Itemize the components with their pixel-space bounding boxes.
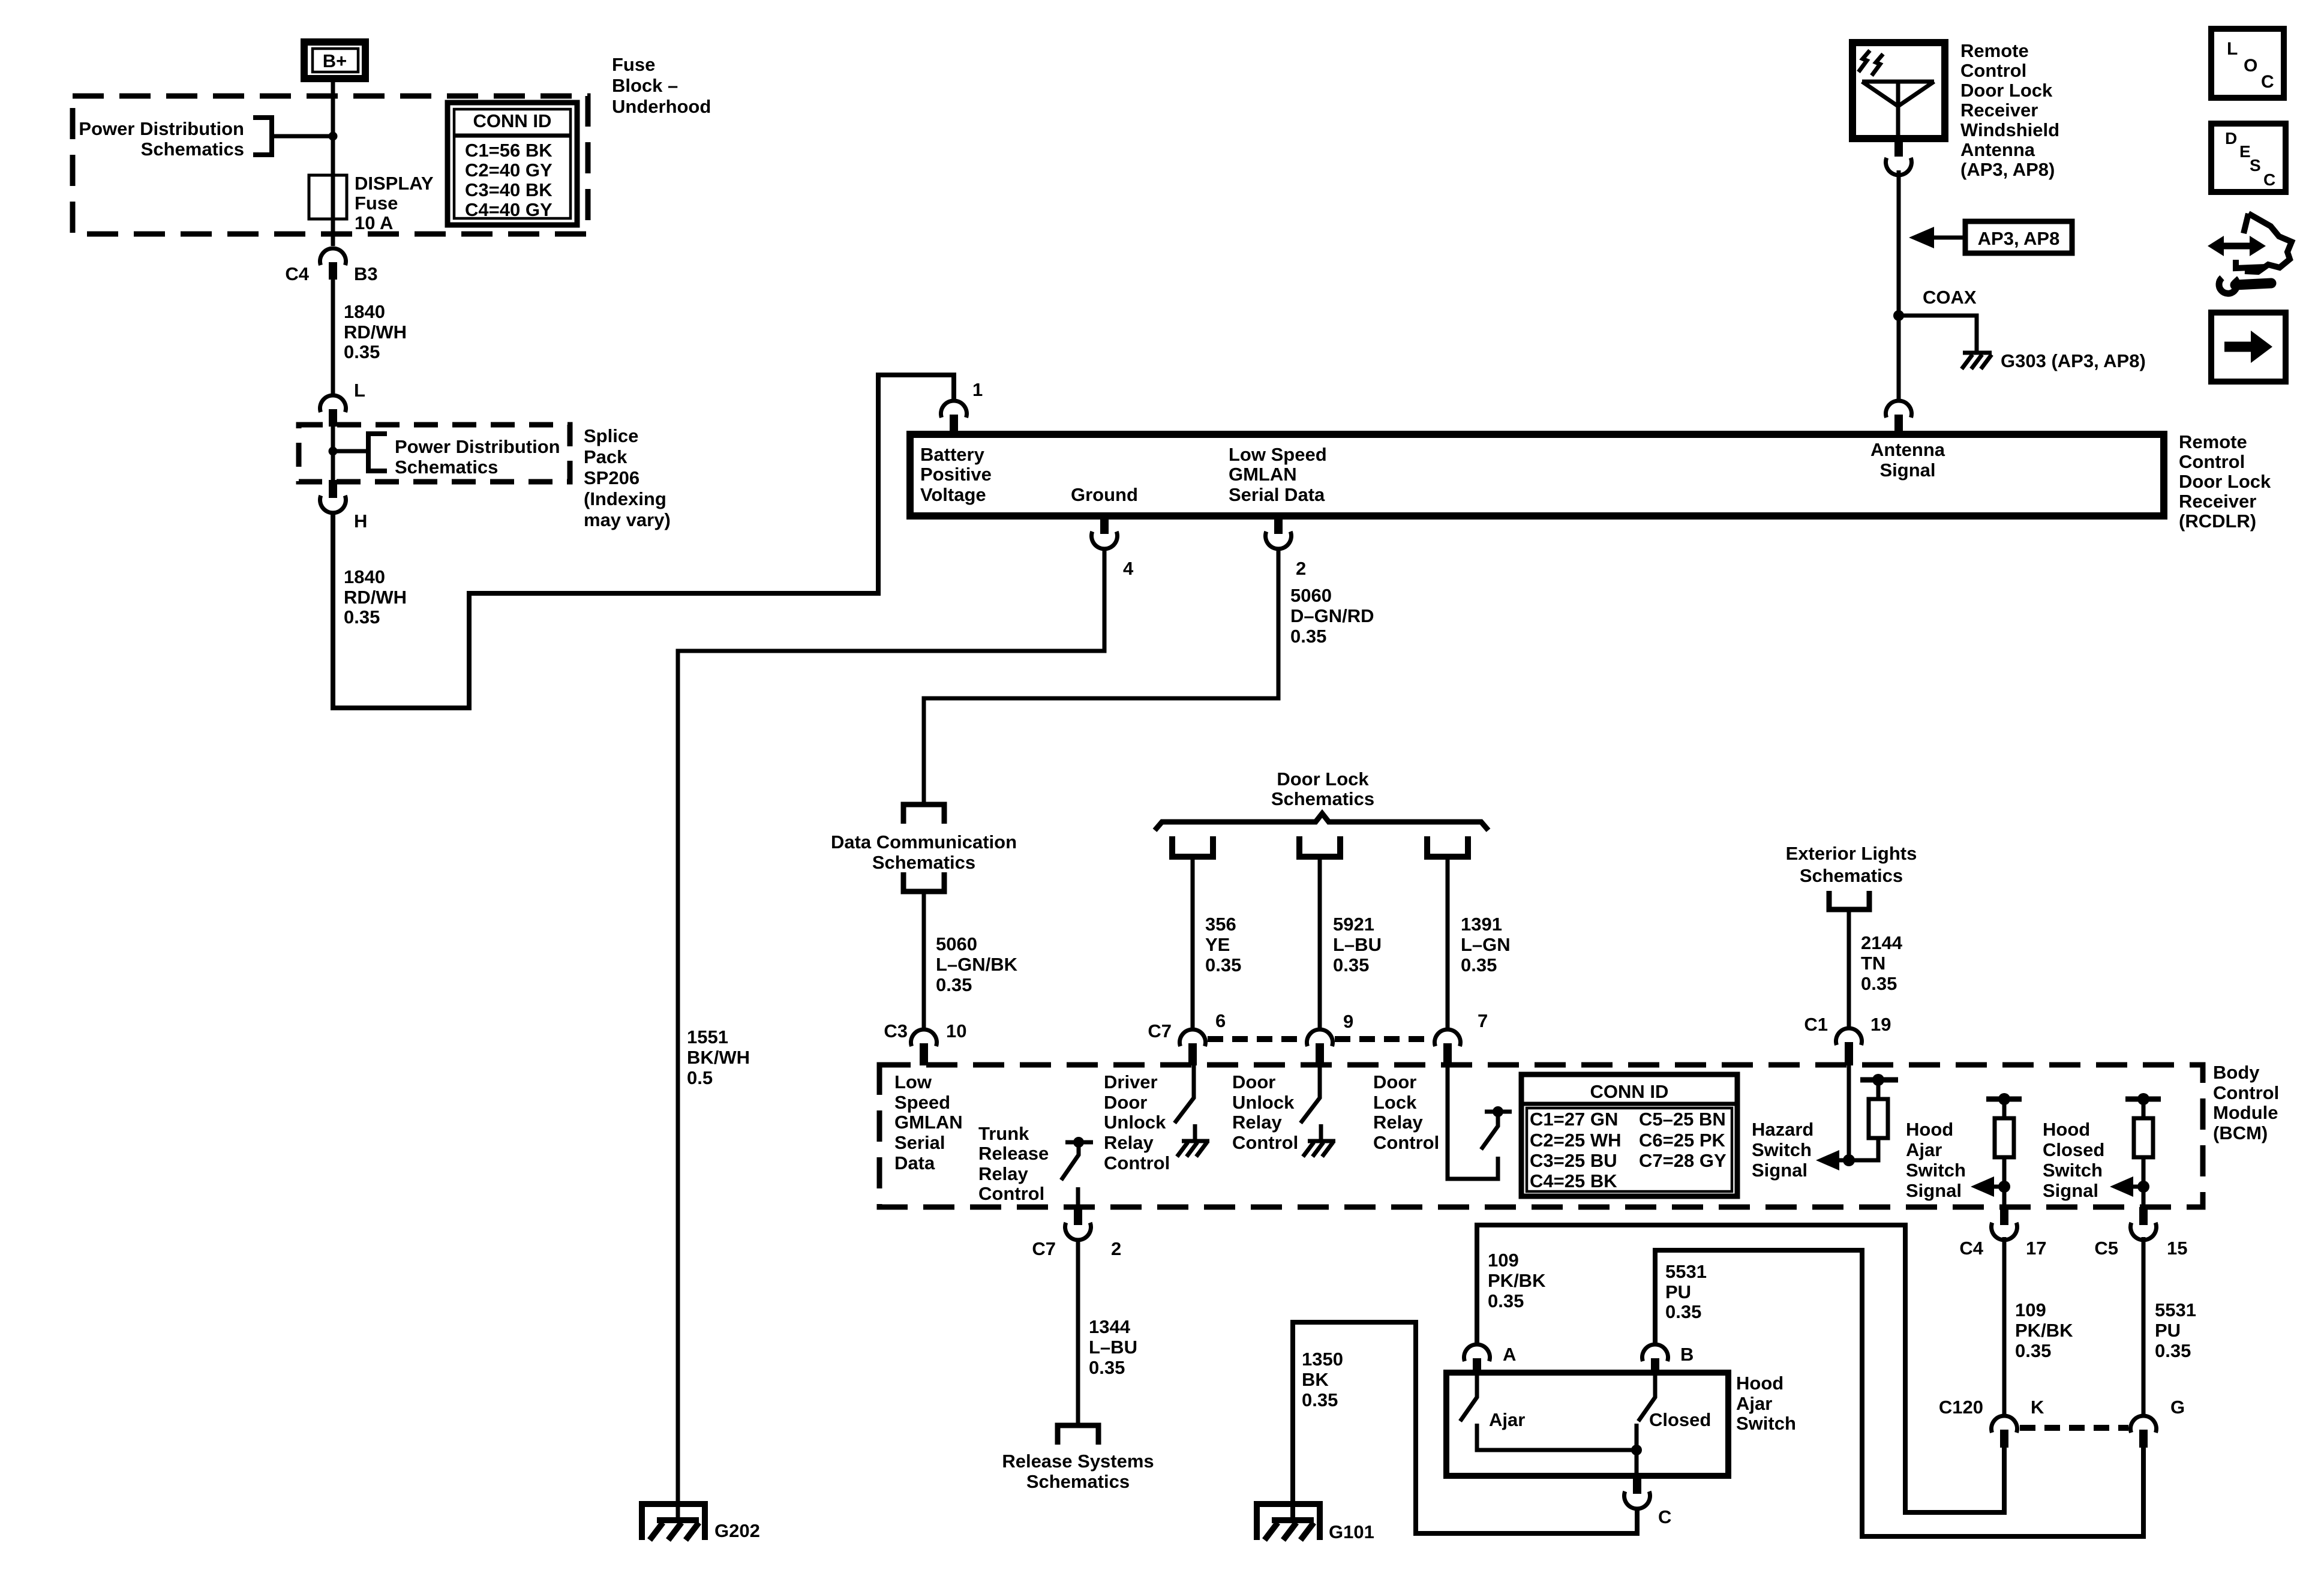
icon forward arrow box	[2211, 313, 2286, 382]
fuse DISPLAY 10A	[309, 173, 434, 233]
svg-text:(RCDLR): (RCDLR)	[2179, 511, 2256, 532]
svg-text:Remote: Remote	[1960, 40, 2029, 61]
svg-text:109: 109	[1488, 1250, 1519, 1271]
wire 5921 L-BU	[1318, 857, 1322, 1028]
connector C3 pin 10	[884, 1020, 966, 1065]
svg-text:Low: Low	[894, 1071, 932, 1092]
svg-text:G: G	[2170, 1397, 2185, 1418]
bracket door lock wire 1	[1172, 836, 1213, 857]
svg-text:Relay: Relay	[1104, 1132, 1154, 1153]
svg-text:L: L	[2227, 39, 2238, 59]
label Door Lock Schematics	[1271, 769, 1374, 809]
svg-text:Release: Release	[978, 1143, 1049, 1164]
svg-text:Control: Control	[1960, 60, 2026, 81]
svg-text:G101: G101	[1329, 1521, 1374, 1542]
svg-text:C2=40 GY: C2=40 GY	[465, 160, 553, 181]
label Remote Control Door Lock Receiver Windshield Antenna	[1960, 40, 2059, 180]
svg-text:C7: C7	[1032, 1238, 1056, 1259]
reference Exterior Lights Schematics	[1786, 843, 1917, 909]
label Remote Control Door Lock Receiver (RCDLR)	[2179, 431, 2271, 532]
svg-text:Schematics: Schematics	[1026, 1471, 1130, 1492]
svg-text:0.35: 0.35	[936, 974, 972, 995]
svg-text:C120: C120	[1939, 1397, 1983, 1418]
dashed connector line K-G	[2020, 1425, 2128, 1431]
svg-text:K: K	[2031, 1397, 2044, 1418]
driver door unlock switch	[1175, 1065, 1194, 1123]
svg-text:Unlock: Unlock	[1232, 1092, 1295, 1113]
svg-text:9: 9	[1343, 1011, 1353, 1032]
svg-text:Control: Control	[1104, 1152, 1170, 1173]
svg-text:Relay: Relay	[1373, 1112, 1423, 1133]
connector B hood switch	[1642, 1344, 1694, 1375]
svg-text:0.35: 0.35	[1290, 626, 1326, 647]
svg-text:Ground: Ground	[1071, 484, 1138, 505]
svg-text:Schematics: Schematics	[1800, 865, 1903, 886]
svg-text:Unlock: Unlock	[1104, 1112, 1166, 1133]
svg-text:Switch: Switch	[1736, 1413, 1796, 1434]
svg-text:Door: Door	[1104, 1092, 1147, 1113]
svg-text:1344: 1344	[1089, 1316, 1131, 1337]
svg-text:Door Lock: Door Lock	[1277, 769, 1369, 789]
coax wire to RCDLR	[1897, 170, 1901, 400]
svg-text:Schematics: Schematics	[141, 139, 244, 160]
svg-text:1350: 1350	[1302, 1349, 1343, 1370]
pin label Hazard Switch Signal	[1752, 1119, 1813, 1181]
connector pin 1	[941, 379, 983, 434]
connector C120 G	[2131, 1397, 2185, 1448]
svg-text:Antenna: Antenna	[1960, 139, 2035, 160]
svg-text:Data Communication: Data Communication	[831, 831, 1017, 852]
svg-text:B+: B+	[323, 50, 347, 71]
svg-text:BK/WH: BK/WH	[687, 1047, 750, 1068]
svg-text:Release Systems: Release Systems	[1002, 1451, 1154, 1472]
svg-text:0.35: 0.35	[1488, 1290, 1524, 1311]
svg-text:C: C	[1658, 1506, 1671, 1527]
hood ajar switch box	[1446, 1373, 1728, 1476]
svg-text:Closed: Closed	[1649, 1409, 1711, 1430]
connector C4 pin 17	[1959, 1207, 2046, 1259]
svg-text:S: S	[2250, 156, 2261, 175]
svg-text:C1=56 BK: C1=56 BK	[465, 140, 553, 161]
hood ajar arrow junction	[1971, 1176, 2010, 1197]
wire from G to hood ajar switch B	[1655, 1250, 2143, 1536]
wire from B+ into fuse block	[331, 82, 335, 246]
svg-text:0.35: 0.35	[344, 341, 380, 362]
bracket door lock wire 3	[1427, 836, 1468, 857]
svg-text:GMLAN: GMLAN	[894, 1112, 963, 1133]
svg-text:C4: C4	[285, 263, 309, 284]
svg-text:Splice: Splice	[584, 425, 638, 446]
junction dot hood switch common	[1631, 1445, 1642, 1455]
RCDLR box	[910, 434, 2164, 516]
svg-text:Door Lock: Door Lock	[1960, 80, 2053, 101]
connector C120 K	[1939, 1397, 2044, 1448]
svg-text:Hood: Hood	[2043, 1119, 2090, 1140]
svg-text:Remote: Remote	[2179, 431, 2247, 452]
svg-text:Trunk: Trunk	[978, 1123, 1029, 1144]
svg-text:AP3, AP8: AP3, AP8	[1978, 228, 2060, 249]
svg-text:SP206: SP206	[584, 467, 639, 488]
wire label 5060 D-GN/RD 0.35	[1290, 585, 1374, 647]
connector C7 pin 6	[1148, 1010, 1226, 1065]
svg-text:Schematics: Schematics	[872, 852, 975, 873]
svg-text:Signal: Signal	[1879, 460, 1935, 481]
svg-text:H: H	[354, 511, 367, 532]
connector pin 7	[1435, 1010, 1488, 1065]
svg-text:B: B	[1680, 1344, 1694, 1365]
svg-text:Power Distribution: Power Distribution	[79, 118, 244, 139]
wire 5531 PU C5-15 to C120-G	[2142, 1237, 2146, 1415]
svg-text:D–GN/RD: D–GN/RD	[1290, 605, 1374, 626]
AP3 AP8 flag box with arrow	[1909, 221, 2072, 253]
svg-text:Control: Control	[978, 1183, 1044, 1204]
pin label Battery Positive Voltage	[920, 444, 992, 505]
svg-text:Ajar: Ajar	[1906, 1139, 1942, 1160]
pin label Low Speed GMLAN Serial Data	[1229, 444, 1327, 505]
svg-text:DISPLAY: DISPLAY	[355, 173, 434, 194]
svg-text:0.35: 0.35	[2155, 1340, 2191, 1361]
dashed connector line pins 9-7	[1335, 1036, 1433, 1042]
svg-text:Switch: Switch	[1752, 1139, 1812, 1160]
svg-text:Switch: Switch	[2043, 1160, 2103, 1181]
svg-text:may vary): may vary)	[584, 509, 671, 530]
svg-text:Data: Data	[894, 1152, 935, 1173]
svg-text:Positive: Positive	[920, 464, 992, 485]
svg-text:0.35: 0.35	[2015, 1340, 2051, 1361]
svg-text:109: 109	[2015, 1299, 2046, 1320]
wire label 5531 PU 0.35 (left)	[1665, 1261, 1707, 1322]
connector C4/B3	[285, 248, 377, 284]
svg-text:C7=28 GY: C7=28 GY	[1639, 1150, 1727, 1171]
svg-text:BK: BK	[1302, 1369, 1329, 1390]
label Fuse Block - Underhood	[612, 54, 711, 117]
svg-text:5060: 5060	[1290, 585, 1332, 606]
svg-text:Signal: Signal	[1906, 1180, 1962, 1201]
svg-text:Power Distribution: Power Distribution	[395, 436, 560, 457]
svg-text:YE: YE	[1205, 934, 1230, 955]
svg-text:5921: 5921	[1333, 914, 1374, 935]
BCM dashed box	[879, 1065, 2203, 1207]
wire label 5060 L-GN/BK 0.35	[936, 933, 1018, 995]
svg-text:Ajar: Ajar	[1736, 1393, 1772, 1414]
svg-text:Voltage: Voltage	[920, 484, 986, 505]
ajar switch blade	[1460, 1375, 1637, 1450]
svg-text:C5: C5	[2094, 1238, 2118, 1259]
svg-text:CONN ID: CONN ID	[473, 110, 552, 131]
wire 5060 L-GN/BK to BCM	[922, 891, 926, 1028]
svg-text:A: A	[1503, 1344, 1516, 1365]
svg-text:Speed: Speed	[894, 1092, 950, 1113]
svg-text:5060: 5060	[936, 933, 977, 954]
junction dot at fuse feed	[329, 132, 338, 141]
door unlock relay switch	[1301, 1065, 1320, 1123]
pin label Low Speed GMLAN Serial Data (BCM)	[894, 1071, 963, 1173]
svg-text:PK/BK: PK/BK	[2015, 1320, 2073, 1341]
svg-text:1840: 1840	[344, 566, 385, 587]
svg-text:(AP3, AP8): (AP3, AP8)	[1960, 159, 2055, 180]
reference bracket Power Distribution Schematics (fuse block)	[79, 118, 333, 160]
wire label 5531 PU 0.35 (right)	[2155, 1299, 2196, 1361]
connector A hood switch	[1464, 1344, 1516, 1375]
svg-text:C4: C4	[1959, 1238, 1983, 1259]
svg-text:Signal: Signal	[2043, 1180, 2098, 1201]
svg-text:1391: 1391	[1461, 914, 1502, 935]
svg-text:Serial Data: Serial Data	[1229, 484, 1325, 505]
wire label 1551 BK/WH 0.5	[687, 1026, 750, 1088]
svg-text:Driver: Driver	[1104, 1071, 1158, 1092]
ground G303	[1962, 350, 2146, 371]
fuse block underhood dashed box	[73, 96, 588, 234]
svg-text:Control: Control	[1232, 1132, 1298, 1153]
svg-text:L: L	[354, 380, 365, 401]
svg-text:0.35: 0.35	[1333, 954, 1369, 975]
wire label 109 PK/BK 0.35 (left)	[1488, 1250, 1546, 1311]
svg-text:0.35: 0.35	[1302, 1389, 1338, 1410]
svg-text:Hazard: Hazard	[1752, 1119, 1813, 1140]
reference Release Systems Schematics	[1002, 1425, 1154, 1492]
wire C4 to L	[331, 278, 335, 394]
svg-text:L–BU: L–BU	[1089, 1337, 1137, 1358]
reference bracket Power Distribution Schematics (splice)	[333, 434, 560, 478]
svg-text:C5–25 BN: C5–25 BN	[1639, 1109, 1726, 1130]
svg-text:C3=40 BK: C3=40 BK	[465, 179, 553, 200]
svg-text:C: C	[2263, 170, 2275, 189]
wire label 2144 TN 0.35	[1861, 932, 1903, 994]
svg-text:C: C	[2261, 72, 2274, 92]
resistor hood closed switch	[2125, 1093, 2161, 1207]
door lock relay switch	[1448, 1065, 1512, 1179]
svg-text:0.35: 0.35	[1089, 1357, 1125, 1378]
svg-text:Body: Body	[2213, 1062, 2260, 1083]
splice pack SP206 dashed box	[299, 425, 570, 482]
svg-text:5531: 5531	[2155, 1299, 2196, 1320]
wire L to splice pack	[331, 425, 335, 480]
closed switch blade	[1637, 1375, 1711, 1476]
svg-text:5531: 5531	[1665, 1261, 1707, 1282]
svg-text:E: E	[2239, 142, 2251, 161]
icon LOC	[2211, 29, 2284, 98]
connector C1 pin 19	[1804, 1014, 1891, 1065]
label Splice Pack SP206	[584, 425, 671, 530]
icon DESC	[2211, 124, 2286, 192]
svg-text:(Indexing: (Indexing	[584, 488, 666, 509]
svg-text:G202: G202	[714, 1520, 760, 1541]
connector pin 2	[1266, 516, 1307, 579]
wire from K to hood ajar switch A	[1477, 1225, 2004, 1512]
wire label 356 YE 0.35	[1205, 914, 1241, 975]
CONN ID table (fuse block)	[448, 103, 577, 225]
svg-text:Low Speed: Low Speed	[1229, 444, 1327, 465]
svg-text:Schematics: Schematics	[395, 457, 498, 478]
connector H	[320, 480, 368, 532]
svg-text:B3: B3	[354, 263, 378, 284]
wire 1840 from H to RCDLR pin 1	[333, 375, 954, 708]
resistor hood ajar switch	[1986, 1093, 2022, 1207]
svg-text:CONN ID: CONN ID	[1590, 1081, 1669, 1102]
svg-text:17: 17	[2026, 1238, 2046, 1259]
svg-text:Signal: Signal	[1752, 1160, 1807, 1181]
ground symbol door unlock	[1303, 1124, 1335, 1157]
dashed connector line pins 6-9	[1208, 1036, 1305, 1042]
svg-text:(BCM): (BCM)	[2213, 1122, 2268, 1143]
pin label Door Unlock Relay Control	[1232, 1071, 1298, 1153]
wire label 5921 L-BU 0.35	[1333, 914, 1382, 975]
svg-text:Door Lock: Door Lock	[2179, 471, 2271, 492]
wire label 1840 RD/WH 0.35 (lower)	[344, 566, 407, 628]
svg-text:Receiver: Receiver	[2179, 491, 2256, 512]
svg-text:0.35: 0.35	[1205, 954, 1241, 975]
svg-text:0.35: 0.35	[1861, 973, 1897, 994]
CONN ID table (BCM)	[1521, 1074, 1737, 1196]
ground G202	[642, 1504, 760, 1541]
svg-text:Fuse: Fuse	[612, 54, 655, 75]
svg-text:1551: 1551	[687, 1026, 728, 1047]
svg-text:0.35: 0.35	[344, 607, 380, 628]
pin label Door Lock Relay Control	[1373, 1071, 1439, 1153]
svg-text:Relay: Relay	[1232, 1112, 1282, 1133]
svg-text:Switch: Switch	[1906, 1160, 1966, 1181]
svg-text:10: 10	[946, 1020, 966, 1041]
node B+ battery feed	[304, 42, 365, 79]
svg-text:Door: Door	[1373, 1071, 1416, 1092]
svg-text:G303 (AP3, AP8): G303 (AP3, AP8)	[2001, 350, 2146, 371]
connector pin 4	[1092, 516, 1134, 579]
trunk release relay switch	[1061, 1137, 1093, 1207]
reference Data Communication Schematics	[831, 804, 1017, 891]
svg-text:C3=25 BU: C3=25 BU	[1530, 1150, 1617, 1171]
svg-text:4: 4	[1123, 558, 1134, 579]
svg-text:Antenna: Antenna	[1870, 439, 1945, 460]
wire from C to ground G101	[1293, 1322, 1637, 1533]
svg-text:D: D	[2225, 129, 2237, 148]
pin label Driver Door Unlock Relay Control	[1104, 1071, 1170, 1173]
svg-text:Receiver: Receiver	[1960, 100, 2038, 121]
wire label 1840 RD/WH 0.35 (upper)	[344, 301, 407, 362]
svg-text:TN: TN	[1861, 953, 1885, 974]
svg-text:Closed: Closed	[2043, 1139, 2104, 1160]
svg-text:C7: C7	[1148, 1020, 1172, 1041]
junction dot coax ground tap	[1893, 310, 1904, 321]
svg-text:PU: PU	[1665, 1281, 1691, 1302]
svg-text:PU: PU	[2155, 1320, 2181, 1341]
svg-text:Door: Door	[1232, 1071, 1275, 1092]
antenna module box	[1852, 43, 1945, 139]
hood closed arrow junction	[2110, 1176, 2149, 1197]
svg-text:Block –: Block –	[612, 75, 678, 96]
svg-text:Schematics: Schematics	[1271, 788, 1374, 809]
connector antenna signal pin	[1886, 401, 1912, 434]
svg-text:C4=40 GY: C4=40 GY	[465, 199, 553, 220]
svg-text:Relay: Relay	[978, 1163, 1028, 1184]
ground G101	[1257, 1504, 1374, 1542]
wire 356 YE	[1191, 857, 1195, 1028]
svg-text:C2=25 WH: C2=25 WH	[1530, 1130, 1621, 1151]
svg-text:1840: 1840	[344, 301, 385, 322]
wire label 1350 BK 0.35	[1302, 1349, 1343, 1410]
wire label 1344 L-BU 0.35	[1089, 1316, 1137, 1378]
junction dot at splice	[329, 447, 338, 456]
wire 2144 TN	[1847, 909, 1851, 1027]
wire label 109 PK/BK 0.35 (right)	[2015, 1299, 2073, 1361]
svg-text:7: 7	[1478, 1010, 1488, 1031]
label Hood Ajar Switch	[1736, 1373, 1796, 1434]
svg-text:0.35: 0.35	[1461, 954, 1497, 975]
svg-text:19: 19	[1870, 1014, 1891, 1035]
svg-text:2: 2	[1111, 1238, 1121, 1259]
wire 109 PK/BK C4-17 to C120-K	[2002, 1237, 2007, 1415]
hazard switch signal wire and arrow	[1816, 1065, 1855, 1170]
pin label Antenna Signal	[1870, 439, 1945, 481]
svg-text:PK/BK: PK/BK	[1488, 1270, 1546, 1291]
svg-text:0.35: 0.35	[1665, 1301, 1701, 1322]
wire 1391 L-GN	[1446, 857, 1450, 1028]
svg-text:Serial: Serial	[894, 1132, 945, 1153]
svg-text:L–GN/BK: L–GN/BK	[936, 954, 1018, 975]
svg-text:C6=25 PK: C6=25 PK	[1639, 1130, 1726, 1151]
svg-text:2144: 2144	[1861, 932, 1903, 953]
wire to G303	[1899, 316, 1977, 351]
svg-text:6: 6	[1215, 1010, 1226, 1031]
pin label Hood Ajar Switch Signal	[1906, 1119, 1966, 1201]
svg-text:GMLAN: GMLAN	[1229, 464, 1297, 485]
brace for door lock schematics	[1155, 813, 1488, 830]
wire 1344 L-BU	[1076, 1239, 1080, 1424]
serial data wire 5060 from pin 2	[924, 548, 1278, 804]
svg-text:15: 15	[2167, 1238, 2187, 1259]
svg-text:1: 1	[972, 379, 983, 400]
svg-text:0.5: 0.5	[687, 1067, 713, 1088]
ground wire 1551 from pin 4 to G202	[678, 548, 1104, 1520]
svg-text:2: 2	[1296, 558, 1306, 579]
svg-text:C1=27 GN: C1=27 GN	[1530, 1109, 1618, 1130]
svg-text:Ajar: Ajar	[1489, 1409, 1525, 1430]
svg-text:Hood: Hood	[1906, 1119, 1953, 1140]
svg-text:L–GN: L–GN	[1461, 934, 1511, 955]
connector C7 pin 2 (trunk release)	[1032, 1207, 1121, 1259]
label Body Control Module (BCM)	[2213, 1062, 2279, 1143]
svg-text:Control: Control	[2179, 451, 2245, 472]
svg-text:Hood: Hood	[1736, 1373, 1783, 1394]
svg-text:RD/WH: RD/WH	[344, 587, 407, 608]
svg-text:10 A: 10 A	[355, 212, 393, 233]
svg-text:Lock: Lock	[1373, 1092, 1417, 1113]
ground symbol driver door unlock	[1177, 1124, 1209, 1157]
svg-text:Windshield: Windshield	[1960, 119, 2059, 140]
svg-text:Pack: Pack	[584, 446, 627, 467]
antenna box bottom connector	[1886, 139, 1912, 175]
bracket door lock wire 2	[1299, 836, 1340, 857]
connector L	[320, 380, 365, 427]
connector C hood switch	[1625, 1476, 1672, 1527]
connector C5 pin 15	[2094, 1207, 2187, 1259]
svg-text:L–BU: L–BU	[1333, 934, 1382, 955]
svg-text:Fuse: Fuse	[355, 193, 398, 214]
svg-text:C1: C1	[1804, 1014, 1828, 1035]
svg-text:Module: Module	[2213, 1102, 2278, 1123]
svg-text:RD/WH: RD/WH	[344, 322, 407, 343]
icon vehicle view with arrows and wrench	[2208, 214, 2292, 293]
pin label Hood Closed Switch Signal	[2043, 1119, 2104, 1201]
svg-text:Control: Control	[1373, 1132, 1439, 1153]
svg-text:356: 356	[1205, 914, 1236, 935]
svg-text:O: O	[2244, 56, 2257, 76]
pin label Trunk Release Relay Control	[978, 1123, 1049, 1204]
svg-text:Exterior Lights: Exterior Lights	[1786, 843, 1917, 864]
svg-text:Control: Control	[2213, 1082, 2279, 1103]
wire label 1391 L-GN 0.35	[1461, 914, 1511, 975]
connector pin 9	[1307, 1011, 1354, 1065]
svg-text:C3: C3	[884, 1020, 908, 1041]
